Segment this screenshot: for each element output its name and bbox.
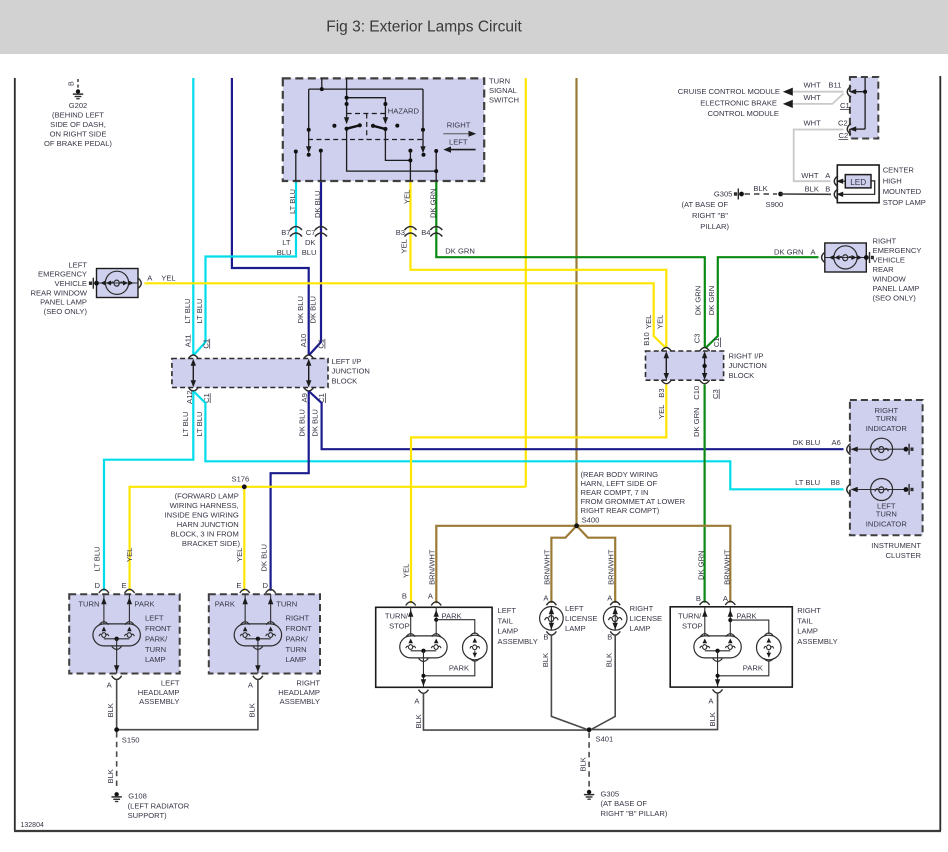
svg-text:LEFT: LEFT: [449, 137, 468, 146]
svg-text:INSTRUMENT: INSTRUMENT: [871, 541, 921, 550]
svg-text:WIRING HARNESS,: WIRING HARNESS,: [170, 501, 239, 510]
svg-text:TURN: TURN: [876, 414, 897, 423]
svg-text:VEHICLE: VEHICLE: [55, 279, 88, 288]
svg-text:LT BLU: LT BLU: [195, 298, 204, 323]
B10-B3 through-wire with arrows: [665, 354, 667, 378]
svg-text:LAMP: LAMP: [145, 655, 166, 664]
svg-text:WHT: WHT: [804, 119, 822, 128]
ground (left turn indicator): [904, 484, 914, 495]
connector arc D: [99, 589, 109, 593]
ground (right turn indicator): [904, 444, 914, 455]
connector arc A11 (top): [188, 355, 198, 359]
lamp bulb circle (right emergency): [834, 246, 857, 269]
left turn indicator bulb: [871, 479, 893, 501]
svg-text:RIGHT: RIGHT: [447, 121, 471, 130]
left contact dots: [294, 150, 298, 154]
ground G305 (bottom): [584, 790, 594, 799]
connector arc A: [431, 602, 441, 606]
junction dot on A wire: [434, 618, 438, 622]
hazard blade right: [373, 126, 385, 129]
output wire DK GRN contact: [435, 151, 437, 181]
svg-text:C1: C1: [317, 339, 326, 349]
svg-text:SWITCH: SWITCH: [489, 96, 519, 105]
svg-text:PARK/: PARK/: [145, 634, 168, 643]
svg-text:B7: B7: [281, 228, 290, 237]
svg-text:LT BLU: LT BLU: [93, 546, 102, 571]
svg-text:LEFT: LEFT: [498, 606, 517, 615]
svg-text:ASSEMBLY: ASSEMBLY: [139, 697, 179, 706]
svg-text:DK BLU: DK BLU: [793, 438, 820, 447]
output junction dot YEL: [408, 158, 412, 162]
svg-text:A10: A10: [299, 334, 308, 348]
wire BLK dashed to G305: [588, 733, 590, 789]
left front park/turn lamp box: [69, 594, 180, 673]
svg-text:DK BLU: DK BLU: [259, 544, 268, 571]
svg-text:LEFT I/P: LEFT I/P: [332, 357, 362, 366]
svg-text:YEL: YEL: [125, 548, 134, 562]
svg-text:CLUSTER: CLUSTER: [886, 551, 922, 560]
title header band: [0, 0, 948, 54]
left wiper pivot dot: [307, 128, 311, 132]
svg-text:PILLAR): PILLAR): [700, 222, 729, 231]
internal bus wire: [864, 78, 866, 129]
left wiper arrowhead: [306, 146, 311, 153]
right turn indicator bulb: [871, 438, 893, 460]
dashed lead to ground G202: [77, 79, 79, 90]
svg-text:B: B: [607, 633, 612, 642]
hazard right arrowhead: [383, 117, 388, 124]
svg-text:YEL: YEL: [161, 274, 175, 283]
interior wire E to bulb: [128, 594, 130, 624]
svg-text:LED: LED: [850, 178, 866, 187]
svg-text:YEL: YEL: [644, 315, 653, 329]
left license lamp: [540, 607, 564, 631]
connector C7 (in-line): [315, 227, 327, 237]
svg-text:DK BLU: DK BLU: [313, 191, 322, 218]
svg-text:HARN, LEFT SIDE OF: HARN, LEFT SIDE OF: [581, 479, 658, 488]
svg-text:PANEL LAMP: PANEL LAMP: [40, 298, 87, 307]
svg-text:ON RIGHT SIDE: ON RIGHT SIDE: [50, 130, 107, 139]
wire park bulb to A junction: [718, 661, 769, 676]
wire BRN/WHT feed from top to S400: [575, 78, 577, 526]
svg-text:PARK: PARK: [215, 599, 235, 608]
svg-text:G108: G108: [128, 792, 147, 801]
svg-text:LAMP: LAMP: [797, 627, 818, 636]
svg-text:INDICATOR: INDICATOR: [866, 520, 908, 529]
svg-text:JUNCTION: JUNCTION: [729, 361, 767, 370]
interior wire B to bulb: [704, 607, 706, 636]
svg-text:LEFT: LEFT: [565, 604, 584, 613]
svg-text:STOP: STOP: [682, 621, 703, 630]
junction dot B11: [863, 90, 867, 94]
frame border right: [939, 76, 941, 831]
svg-text:C3: C3: [693, 333, 702, 343]
wire hazard left leg down: [347, 129, 437, 171]
svg-text:B3: B3: [657, 388, 666, 397]
internal wire: [614, 607, 616, 631]
wire bulb to A exit: [116, 650, 118, 674]
park bulb (right tail): [757, 633, 782, 661]
svg-text:132804: 132804: [21, 822, 44, 829]
left tail lamp assembly box: [376, 607, 492, 687]
wire BRN/WHT S400 to left license lamp: [551, 526, 576, 603]
wire park bulb to A junction: [423, 661, 474, 676]
svg-text:LT BLU: LT BLU: [181, 412, 190, 437]
frame border bottom: [14, 830, 941, 832]
svg-text:BLK: BLK: [579, 757, 588, 771]
LED box: [845, 175, 871, 188]
wire A to LED: [837, 180, 845, 182]
svg-text:(AT BASE OF: (AT BASE OF: [601, 799, 648, 808]
ground G305 (B pillar, top): [734, 189, 744, 200]
svg-text:LAMP: LAMP: [286, 655, 307, 664]
svg-text:BRN/WHT: BRN/WHT: [543, 549, 552, 585]
svg-text:LICENSE: LICENSE: [565, 614, 598, 623]
connector arc A12 (bottom): [188, 387, 198, 391]
feed stub into switch: [321, 78, 323, 89]
svg-text:C10: C10: [692, 386, 701, 400]
wire bulb to A exit: [257, 650, 259, 674]
lamp bulb circle (left emergency): [105, 271, 128, 294]
internal wire: [550, 607, 552, 631]
interior wire A to bulb: [729, 607, 731, 636]
connector arc A (bottom): [418, 690, 428, 694]
svg-text:OF BRAKE PEDAL): OF BRAKE PEDAL): [44, 139, 112, 148]
svg-text:C1: C1: [201, 339, 210, 349]
chassis ground at left edge: [89, 278, 99, 289]
interior wire E to bulb: [244, 594, 246, 624]
svg-text:DK BLU: DK BLU: [296, 296, 305, 323]
svg-text:REAR: REAR: [873, 265, 895, 274]
connector arc B3 (bottom): [661, 380, 671, 384]
right wiper pivot dot: [421, 128, 425, 132]
connector B8: [847, 484, 851, 495]
connector arc B: [700, 601, 710, 605]
svg-text:C2: C2: [839, 131, 849, 140]
svg-text:YEL: YEL: [656, 315, 665, 329]
connector arc A: [725, 601, 735, 605]
svg-text:PARK: PARK: [737, 612, 757, 621]
svg-text:BLK: BLK: [605, 653, 614, 667]
switch bus wire: [309, 88, 423, 90]
left wiper wire: [308, 89, 310, 147]
wire BLK left license to S401: [551, 635, 586, 729]
output wire LT BLU contact: [295, 152, 297, 182]
svg-text:TURN: TURN: [276, 599, 297, 608]
wire LT BLU feed from top to A11: [192, 78, 194, 355]
wire BRN/WHT S400 to left tail lamp A: [436, 526, 576, 604]
svg-text:RIGHT REAR COMPT): RIGHT REAR COMPT): [581, 506, 660, 515]
svg-text:B: B: [402, 592, 407, 601]
wire BLK right tail to S401: [592, 693, 718, 730]
svg-text:DK GRN: DK GRN: [428, 188, 437, 218]
svg-text:D: D: [263, 581, 269, 590]
mechanical link dashed lines: [308, 114, 424, 140]
svg-text:HEADLAMP: HEADLAMP: [278, 688, 320, 697]
connector B11: [847, 86, 851, 97]
interior wire D to bulb: [270, 594, 272, 624]
left emergency vehicle rear window panel lamp box: [97, 269, 139, 298]
svg-text:E: E: [236, 581, 241, 590]
svg-text:JUNCTION: JUNCTION: [332, 367, 370, 376]
wire through left turn indicator: [852, 489, 904, 491]
wire YEL S176 branch to right headlamp E: [243, 487, 245, 591]
svg-text:B8: B8: [831, 478, 840, 487]
svg-text:(AT BASE OF: (AT BASE OF: [681, 200, 728, 209]
svg-text:G305: G305: [601, 790, 620, 799]
svg-text:TAIL: TAIL: [797, 616, 812, 625]
junction dot bus feed: [320, 87, 324, 91]
wire DK GRN from switch via B4, right to C3: [436, 181, 705, 347]
junction dot on A wire: [728, 618, 732, 622]
output wire YEL contact: [409, 151, 411, 181]
branch wire to park bulb: [436, 620, 475, 634]
svg-text:EMERGENCY: EMERGENCY: [873, 246, 922, 255]
svg-text:B: B: [825, 185, 830, 194]
svg-text:BRN/WHT: BRN/WHT: [606, 549, 615, 585]
connector arc A (bottom): [112, 676, 122, 680]
svg-text:BLU: BLU: [302, 248, 317, 257]
A11-A12 through-wire with arrows: [192, 361, 194, 385]
svg-text:LT BLU: LT BLU: [795, 478, 820, 487]
wire YEL park run to left headlamp E: [130, 487, 526, 591]
svg-text:BLK: BLK: [708, 712, 717, 726]
wire BLK dashed to G108: [116, 732, 118, 790]
svg-text:DK GRN: DK GRN: [693, 286, 702, 316]
connector arc A (top): [610, 602, 620, 606]
wire to C2 with arrow: [851, 128, 865, 130]
wire bulb to A exit: [717, 662, 719, 687]
svg-text:BLK: BLK: [753, 184, 767, 193]
svg-text:BLK: BLK: [541, 653, 550, 667]
svg-text:TAIL: TAIL: [498, 616, 513, 625]
svg-text:(LEFT RADIATOR: (LEFT RADIATOR: [128, 801, 190, 810]
svg-text:(BEHIND LEFT: (BEHIND LEFT: [52, 111, 104, 120]
svg-text:B10: B10: [642, 332, 651, 346]
hazard left arrowhead: [344, 117, 349, 124]
wire bulb to A exit: [422, 662, 424, 687]
right wiper wire: [422, 89, 424, 147]
svg-text:DK GRN: DK GRN: [445, 247, 475, 256]
svg-text:WINDOW: WINDOW: [873, 274, 907, 283]
svg-text:C1: C1: [712, 337, 721, 347]
connector A (left edge): [822, 252, 826, 263]
hazard row outer contact dots: [332, 124, 336, 128]
svg-text:BLK: BLK: [106, 703, 115, 717]
dual filament bulb (left tail): [400, 634, 447, 663]
wire BLK S900 to B: [781, 193, 831, 195]
connector arc E: [125, 589, 135, 593]
splice S150: [114, 727, 119, 732]
svg-text:PARK: PARK: [134, 599, 154, 608]
svg-text:LT BLU: LT BLU: [195, 412, 204, 437]
connector arc B (bottom): [610, 631, 620, 635]
connector B4 (in-line): [430, 227, 442, 237]
splice S176: [242, 484, 247, 489]
right wiper arrowhead: [420, 146, 425, 153]
svg-text:DK: DK: [305, 238, 316, 247]
svg-text:BRN/WHT: BRN/WHT: [722, 549, 731, 585]
svg-text:PARK/: PARK/: [286, 634, 309, 643]
svg-text:ASSEMBLY: ASSEMBLY: [797, 637, 837, 646]
hazard feed dots: [345, 96, 349, 100]
output wire DK BLU contact: [320, 151, 322, 181]
svg-text:RIGHT: RIGHT: [873, 237, 897, 246]
interior wire D to bulb: [103, 594, 105, 624]
connector arc B: [406, 602, 416, 606]
svg-text:CONTROL MODULE: CONTROL MODULE: [708, 109, 779, 118]
svg-text:YEL: YEL: [235, 548, 244, 562]
frame border left: [14, 78, 16, 831]
svg-text:E: E: [122, 581, 127, 590]
svg-text:ASSEMBLY: ASSEMBLY: [498, 637, 538, 646]
svg-text:DK GRN: DK GRN: [692, 407, 701, 437]
svg-text:STOP: STOP: [389, 621, 410, 630]
center high mounted stop lamp box: [837, 165, 879, 203]
svg-text:DK BLU: DK BLU: [311, 409, 320, 436]
wire LT BLU A12 to left headlamp D: [104, 392, 193, 591]
svg-text:FROM GROMMET AT LOWER: FROM GROMMET AT LOWER: [581, 497, 686, 506]
wire DK BLU A9 to right headlamp D: [271, 392, 309, 591]
svg-text:G202: G202: [69, 101, 88, 110]
hazard blade left: [347, 125, 360, 128]
svg-text:CRUISE CONTROL MODULE: CRUISE CONTROL MODULE: [678, 87, 780, 96]
svg-text:(FORWARD LAMP: (FORWARD LAMP: [175, 491, 239, 500]
hazard feed wire: [346, 78, 348, 118]
connector A6: [847, 444, 851, 455]
svg-text:LT BLU: LT BLU: [288, 189, 297, 214]
branch wire to park bulb: [730, 620, 769, 634]
svg-text:C7: C7: [306, 228, 316, 237]
svg-text:HAZARD: HAZARD: [388, 107, 420, 116]
wire BLK left headlamp to S150: [116, 680, 118, 730]
connector B3 (in-line): [405, 227, 417, 237]
svg-text:BRACKET SIDE): BRACKET SIDE): [182, 539, 241, 548]
wire WHT from C2 to stop lamp A: [794, 130, 844, 182]
wire YEL B3 exit to left tail lamp B: [411, 385, 666, 604]
wire DK BLU feed from top, right to A10: [232, 78, 309, 355]
wire DK BLU C1 to instrument cluster A6: [309, 392, 843, 450]
right contact dots: [408, 149, 412, 153]
connector arc C3 (top): [700, 348, 710, 352]
svg-text:S400: S400: [582, 515, 600, 524]
wire YEL from switch via B3, right to B10: [411, 181, 667, 347]
svg-text:DK GRN: DK GRN: [707, 286, 716, 316]
svg-text:VEHICLE: VEHICLE: [873, 255, 906, 264]
svg-text:BLK: BLK: [106, 769, 115, 783]
connector arc E: [240, 589, 250, 593]
svg-text:TURN/: TURN/: [678, 612, 702, 621]
svg-text:A11: A11: [183, 334, 192, 347]
wire hazard right leg down: [385, 129, 410, 160]
svg-text:BRN/WHT: BRN/WHT: [427, 549, 436, 585]
svg-text:D: D: [95, 581, 101, 590]
arrow to EBCM: [783, 100, 793, 108]
svg-text:DK BLU: DK BLU: [308, 296, 317, 323]
svg-text:REAR COMPT, 7 IN: REAR COMPT, 7 IN: [581, 488, 649, 497]
svg-text:A6: A6: [832, 438, 841, 447]
svg-text:G305: G305: [714, 190, 733, 199]
svg-text:WHT: WHT: [801, 171, 819, 180]
C3-C10 through-wire with arrows: [704, 354, 706, 378]
wire B to LED right side: [837, 181, 874, 194]
svg-text:LT: LT: [282, 238, 291, 247]
svg-text:Fig 3: Exterior Lamps Circuit: Fig 3: Exterior Lamps Circuit: [326, 19, 522, 36]
svg-text:HEADLAMP: HEADLAMP: [138, 688, 180, 697]
svg-text:(REAR BODY WIRING: (REAR BODY WIRING: [581, 470, 659, 479]
svg-text:LEFT: LEFT: [145, 614, 164, 623]
connector arc A (bottom): [253, 676, 263, 680]
ground symbol G202: [73, 89, 83, 98]
wire WHT to cruise control module: [793, 91, 844, 93]
internal wire with arrows: [97, 282, 138, 284]
A10-A9 through-wire with arrows: [308, 361, 310, 385]
right emergency vehicle rear window panel lamp box: [825, 243, 867, 272]
svg-text:SIDE OF DASH,: SIDE OF DASH,: [50, 120, 106, 129]
right front park/turn lamp box: [209, 594, 320, 673]
svg-text:B11: B11: [828, 80, 841, 89]
svg-text:WHT: WHT: [804, 80, 822, 89]
svg-text:RIGHT: RIGHT: [797, 606, 821, 615]
wire BLK left tail to S401: [423, 693, 589, 730]
svg-text:LT BLU: LT BLU: [183, 298, 192, 323]
wire DK GRN C10 exit to right tail lamp B: [703, 385, 705, 603]
connector A (stop lamp): [834, 176, 838, 187]
svg-text:RIGHT: RIGHT: [630, 604, 654, 613]
dual filament bulb (right tail): [694, 634, 741, 663]
svg-text:RIGHT "B" PILLAR): RIGHT "B" PILLAR): [601, 809, 668, 818]
dual filament bulb (left front): [93, 622, 140, 651]
svg-text:LEFT: LEFT: [68, 260, 87, 269]
connector A (right edge): [138, 278, 142, 289]
svg-text:HIGH: HIGH: [883, 176, 902, 185]
svg-text:S150: S150: [122, 736, 140, 745]
interior wire A to bulb: [435, 607, 437, 636]
body control connector box (top right): [850, 77, 878, 139]
svg-text:PARK: PARK: [449, 664, 469, 673]
connector B7 (in-line): [290, 227, 302, 237]
wire YEL park feed from top to S176 level: [525, 78, 527, 487]
connector arc A (top): [546, 602, 556, 606]
svg-text:DK BLU: DK BLU: [298, 409, 307, 436]
svg-text:BLK: BLK: [247, 703, 256, 717]
wire DK BLU from switch via C7 to A10 (diagonal): [309, 181, 321, 355]
svg-text:RIGHT I/P: RIGHT I/P: [729, 352, 764, 361]
svg-text:MOUNTED: MOUNTED: [883, 187, 922, 196]
wire BLK dashed to S900: [745, 193, 778, 195]
svg-text:DK GRN: DK GRN: [774, 248, 804, 257]
svg-text:ASSEMBLY: ASSEMBLY: [280, 697, 320, 706]
turn signal switch box: [283, 78, 484, 181]
output junction dot DK GRN: [434, 169, 438, 173]
svg-text:TURN: TURN: [876, 510, 897, 519]
connector arc A (bottom): [713, 689, 723, 693]
svg-text:B: B: [67, 81, 76, 86]
interior wire B to bulb: [410, 607, 412, 636]
wire DK GRN from C1 up and right to lamp A: [706, 257, 819, 348]
junction dot inside block: [702, 364, 706, 368]
svg-text:(SEO ONLY): (SEO ONLY): [873, 294, 917, 303]
right I/P junction block: [646, 351, 724, 380]
svg-text:RIGHT "B": RIGHT "B": [692, 211, 728, 220]
left I/P junction block: [172, 359, 328, 388]
svg-text:BLK: BLK: [805, 185, 819, 194]
connector arc A10 (top): [304, 355, 314, 359]
wire YEL from lamp to B10: [145, 283, 667, 348]
wire to B11 with arrow: [851, 91, 865, 93]
svg-text:SIGNAL: SIGNAL: [489, 86, 517, 95]
connector C2: [847, 124, 851, 135]
